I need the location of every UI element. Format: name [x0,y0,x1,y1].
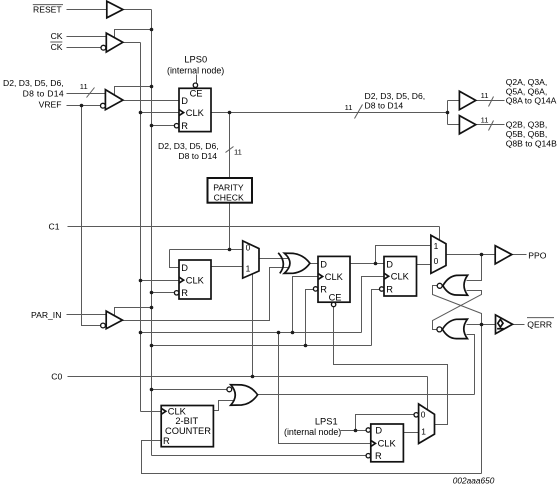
svg-text:CE: CE [190,89,203,99]
svg-text:QERR: QERR [527,320,552,330]
wire buffer B input [448,124,460,126]
junction parity/mux1 [228,248,232,252]
wire latch node to QERR buffer [467,324,496,326]
receiver CK [106,33,123,52]
junction bus/parity [228,111,232,115]
wire bus branch to output buffers [447,101,449,125]
junction LPS1 [354,429,358,433]
junction PPO feedback [480,253,484,257]
wire PAR_IN receiver output to XOR [123,268,291,321]
NOR gate lower (mirrored) [437,319,468,339]
junction reset/FF2R [150,291,154,295]
svg-text:D2, D3, D5, D6,: D2, D3, D5, D6, [158,141,219,151]
svg-text:1: 1 [246,263,251,273]
svg-text:PPO: PPO [528,250,546,260]
wire PAR_IN input [67,314,107,316]
wire RESET input [67,9,152,11]
buffer QERR open-drain [496,315,513,334]
wire mux2 output to PPO buffer [447,254,496,256]
svg-text:R: R [320,284,327,294]
svg-text:CLK: CLK [378,439,397,449]
svg-text:CLK: CLK [325,272,344,282]
junction reset/CK [150,28,154,32]
wire clock to FF2 CLK [141,280,180,282]
buffer QA [459,91,475,110]
wire clock to FF1 CLK [141,112,180,114]
svg-text:RESET: RESET [33,5,62,15]
svg-text:2-BIT: 2-BIT [175,416,198,426]
svg-text:C0: C0 [51,371,62,381]
svg-text:D8 to D14: D8 to D14 [178,151,217,161]
wire reset to CK receiver [115,30,152,39]
junction bus/buffers [446,111,450,115]
svg-text:11: 11 [345,103,353,112]
wire FF3 Q to FF4 D [351,263,385,265]
svg-text:D8 to D14: D8 to D14 [365,100,404,110]
junction reset/FF1R [150,124,154,128]
wire slash D input bus [87,88,95,98]
svg-text:R: R [375,451,382,461]
svg-text:PAR_IN: PAR_IN [31,310,61,320]
junction clock/FF5 [277,331,281,335]
mux U1 0/1 [243,241,259,278]
svg-text:R: R [386,284,393,294]
wire slash FF1 out bus [355,105,363,119]
wire LPS1 to FF5 D [341,430,367,432]
wire LPS0 stub [196,75,198,84]
svg-text:CLK: CLK [168,407,187,417]
junction FF3Q/mux2 [374,262,378,266]
XOR gate [278,253,310,274]
wire XOR output to FF3 D [311,263,319,265]
svg-text:D: D [375,426,382,436]
wire OR gate output to latch [258,394,475,396]
wire PPO feedback to latch [467,255,482,281]
svg-text:D: D [181,96,188,106]
svg-text:0: 0 [246,242,251,252]
receiver DATA [105,90,123,110]
wire reset to data receiver [115,87,152,96]
wire latch node drop to bottom [481,325,483,474]
wire slash buffer A output [489,97,494,107]
wire clock to counter CLK [141,411,162,413]
wire reset to OR gate [152,389,227,391]
wire upper NOR lower input from lower NOR [433,291,482,330]
wire FF4 CLK riser [362,277,385,333]
wire FF5 CLK drop [279,333,372,444]
svg-text:(internal node): (internal node) [284,427,341,437]
junction reset line R [150,344,154,348]
wire upper NOR output [433,286,482,325]
buffer RESET [107,1,123,18]
wire clock line to FF3 FF4 FF5 [141,332,362,334]
svg-text:Q5B, Q6B,: Q5B, Q6B, [506,129,548,139]
svg-text:R: R [181,121,188,131]
wire counter R loop [142,441,482,474]
svg-text:0: 0 [434,256,439,266]
svg-text:PARITY: PARITY [213,182,244,192]
wire FF3 CLK riser [293,277,319,333]
junction latch QERR node [480,323,484,327]
wire QERR output [513,324,525,326]
2-bit counter box [161,406,213,447]
wire reset to FF1 R [152,125,175,127]
wire counter output to OR gate [214,401,234,411]
wire FF3 CE from mux3 output [334,307,448,425]
junction reset/data [150,85,154,89]
svg-text:CK: CK [51,31,63,41]
svg-text:D: D [320,259,327,269]
wire C1 to mux2 select [439,227,441,241]
junction clock/FF2 [139,279,143,283]
svg-text:D: D [181,263,188,273]
svg-text:CLK: CLK [186,108,205,118]
wire parity check input [229,113,231,179]
wire FF4 Q to mux2 0-input [417,264,431,266]
svg-text:1: 1 [434,241,439,251]
wire FF3 Q branch to mux2 1-input [376,246,431,264]
svg-text:R: R [163,436,170,446]
flip-flop FF5 [366,424,403,462]
junction C0/mux1 select [251,375,255,379]
wire D bus input [67,93,106,95]
svg-text:002aaa650: 002aaa650 [453,476,495,486]
junction reset/OR [150,388,154,392]
wire latch lower-gate lower input [467,335,475,395]
junction clock line left [139,331,143,335]
svg-text:11: 11 [80,82,88,91]
wire reset to FF5 R [152,455,367,457]
wire C0 to mux3 select [427,377,429,411]
wire parity to mux1 0-input [170,249,243,251]
junction VREF column [80,104,84,108]
svg-text:11: 11 [481,91,489,100]
wire VREF column [82,106,102,326]
wire slash parity input [226,147,234,153]
flip-flop FF4 [380,257,417,297]
OR gate counter [231,385,258,406]
wire CK receiver output to clock column [124,42,141,44]
wire clock column [140,43,142,412]
wire LPS1 branch to mux3 0-input [356,415,415,431]
svg-text:D: D [386,259,393,269]
wire slash buffer B output [489,121,494,131]
wire mux1 output to XOR [260,258,291,260]
svg-text:CLK: CLK [391,272,410,282]
wire VREF input [67,105,101,107]
junction reset/PAR_IN [150,306,154,310]
svg-text:Q8A to Q14A: Q8A to Q14A [506,96,557,106]
wire buffer B output [477,124,505,126]
svg-text:CE: CE [329,293,342,303]
svg-text:(internal node): (internal node) [167,65,224,75]
wire buffer A input [448,100,460,102]
wire reset column [151,10,153,456]
svg-text:11: 11 [234,148,242,157]
svg-text:COUNTER: COUNTER [165,426,211,436]
wire mux1 select from C0 [252,275,254,377]
wire C1 input [68,226,440,228]
parity check box [208,178,253,203]
wire CKbar input [67,47,102,49]
svg-text:CK: CK [51,42,63,52]
svg-text:C1: C1 [49,221,60,231]
wire C0 input [68,376,428,378]
wire PPO output [513,254,527,256]
svg-text:D2, D3, D5, D6,: D2, D3, D5, D6, [3,78,64,88]
wire FF3 R riser [306,290,314,346]
wire data receiver to FF1 D [124,100,180,102]
wire reset to PAR_IN receiver [115,308,152,317]
mux U3 0/1 [414,404,435,444]
buffer QB [459,116,475,134]
svg-text:VREF: VREF [39,100,62,110]
svg-text:1: 1 [421,426,426,436]
buffer PPO [495,246,512,264]
svg-text:LPS0: LPS0 [184,54,207,64]
svg-text:D8 to D14: D8 to D14 [23,89,64,99]
wire FF1 Q bus [212,112,448,114]
wire parity check output [229,204,231,250]
wire FF5 Q to mux3 1-input [404,432,419,434]
svg-text:Q2B, Q3B,: Q2B, Q3B, [506,120,548,130]
svg-text:LPS1: LPS1 [315,417,338,427]
flip-flop FF3 [313,256,350,306]
mux U2 1/0 [431,235,446,273]
wire CK input [67,36,107,38]
svg-text:Q8B to Q14B: Q8B to Q14B [506,139,557,149]
receiver PAR_IN [106,311,122,329]
flip-flop FF2 [174,260,211,299]
svg-text:CHECK: CHECK [214,192,244,202]
svg-text:R: R [181,288,188,298]
svg-text:11: 11 [481,116,489,125]
svg-text:CLK: CLK [186,275,205,285]
wire reset to FF2 R [152,292,175,294]
junction R/FF3 [304,344,308,348]
wire FF2 Q to mux1 1-input [212,266,243,268]
wire reset line to FF3 FF4 R [152,345,372,347]
svg-text:0: 0 [421,410,426,420]
junction clock/FF3 [291,331,295,335]
flip-flop FF1 [174,83,211,132]
wire parity branch to FF2 D [170,250,180,268]
wire FF4 R riser [372,290,381,346]
wire buffer A output [477,100,505,102]
junction clock/FF1 [139,111,143,115]
NOR gate upper (mirrored) [437,275,467,295]
